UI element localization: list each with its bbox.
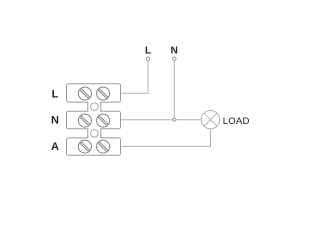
lamp symbol (load) <box>201 111 219 129</box>
notch opening between blocks N and A <box>88 128 100 139</box>
svg-text:LOAD: LOAD <box>223 116 250 127</box>
screw terminal A2 <box>97 140 110 153</box>
mounting hole between blocks N and A <box>91 130 99 138</box>
svg-text:L: L <box>145 45 151 56</box>
screw terminal N2 <box>97 114 110 127</box>
interlock tab line left between blocks L and N <box>87 102 89 112</box>
wire: N row horizontal from block N to lamp <box>121 119 202 121</box>
node: mains terminal L (open circle) <box>146 57 150 61</box>
node: mains terminal N (open circle) <box>173 57 177 61</box>
terminal block L <box>67 84 121 102</box>
interlock tab line left between blocks N and A <box>87 129 89 139</box>
node: junction of mains N with N row wire <box>173 118 176 121</box>
svg-text:A: A <box>51 141 59 153</box>
terminal block N <box>67 111 121 129</box>
interlock tab line right between blocks N and A <box>100 129 102 139</box>
wire: mains L drop from top terminal down then left to block L <box>121 60 148 93</box>
screw terminal N1 <box>78 114 91 127</box>
screw terminal A1 <box>78 140 91 153</box>
svg-text:N: N <box>51 114 59 126</box>
interlock tab line right between blocks L and N <box>100 102 102 112</box>
terminal block A <box>67 138 121 155</box>
wire: A row horizontal from block A then up to lamp bottom <box>121 129 211 147</box>
svg-text:L: L <box>52 89 59 101</box>
wire: mains N drop from top terminal down to junction <box>173 60 175 119</box>
mounting hole between blocks L and N <box>91 103 99 111</box>
screw terminal L1 <box>78 87 91 100</box>
screw terminal L2 <box>97 87 110 100</box>
notch opening between blocks L and N <box>88 101 100 112</box>
svg-text:N: N <box>171 45 178 56</box>
